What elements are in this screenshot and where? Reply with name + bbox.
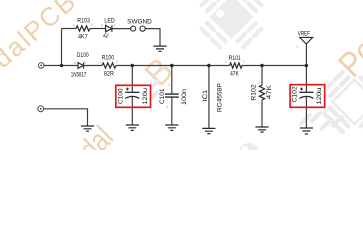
svg-text:2: 2 — [91, 23, 93, 27]
svg-text:C102: C102 — [292, 86, 299, 103]
svg-text:1: 1 — [296, 45, 298, 49]
svg-text:K: K — [84, 61, 87, 65]
svg-text:120u: 120u — [142, 87, 149, 104]
svg-text:K: K — [113, 23, 116, 27]
svg-text:8: 8 — [219, 101, 221, 105]
svg-text:C100: C100 — [118, 88, 125, 104]
svg-text:RC4558P: RC4558P — [216, 83, 223, 112]
svg-text:A: A — [101, 23, 104, 27]
svg-text:82R: 82R — [104, 70, 114, 77]
svg-text:47K: 47K — [266, 84, 273, 99]
svg-text:R103: R103 — [77, 17, 90, 24]
svg-text:2: 2 — [243, 60, 245, 64]
svg-text:100n: 100n — [181, 88, 188, 105]
svg-text:1: 1 — [73, 23, 75, 27]
svg-text:4K7: 4K7 — [78, 33, 88, 40]
svg-text:1: 1 — [99, 61, 101, 65]
svg-text:D100: D100 — [77, 52, 89, 59]
svg-text:VREF: VREF — [298, 30, 310, 37]
svg-text:120u: 120u — [316, 87, 323, 105]
svg-text:1N5817: 1N5817 — [71, 72, 87, 79]
svg-text:2: 2 — [258, 81, 260, 85]
svg-text:R102: R102 — [251, 84, 258, 101]
svg-text:Pedal: Pedal — [51, 119, 120, 150]
svg-text:C101: C101 — [159, 88, 166, 104]
svg-text:R100: R100 — [102, 55, 115, 62]
svg-text:PedalPCB: PedalPCB — [331, 0, 363, 85]
svg-text:SWGND: SWGND — [127, 18, 152, 25]
svg-text:A: A — [74, 61, 77, 65]
svg-text:IC1: IC1 — [202, 89, 209, 101]
svg-text:2: 2 — [116, 60, 118, 64]
svg-text:1: 1 — [258, 101, 260, 105]
svg-text:47K: 47K — [230, 70, 239, 77]
svg-text:PedalPCB: PedalPCB — [0, 0, 83, 97]
svg-text:R101: R101 — [229, 55, 241, 62]
svg-text:1: 1 — [225, 60, 227, 64]
svg-text:2: 2 — [166, 105, 168, 109]
svg-text:1: 1 — [168, 83, 170, 87]
